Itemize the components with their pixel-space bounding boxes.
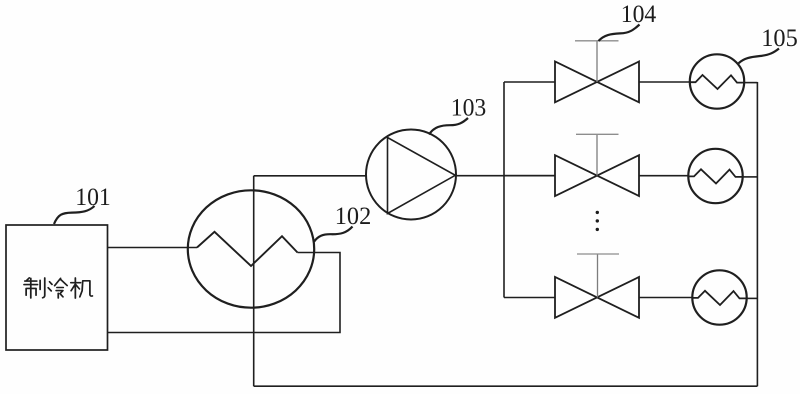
wire V1 to HX1	[639, 81, 690, 83]
leader 104	[599, 25, 640, 42]
svg-text:105: 105	[761, 25, 798, 52]
leader 102	[314, 227, 353, 242]
valve V3 stem	[597, 254, 599, 297]
fan-coil HX circle row2 (105)	[688, 149, 742, 203]
wire HX3 to return bus	[747, 297, 758, 299]
wire HX102 to pump	[254, 175, 366, 177]
wire manifold to valve V1	[504, 81, 555, 83]
wire box to HX102	[108, 247, 198, 249]
valve V3 handle bar	[577, 253, 619, 255]
svg-text:102: 102	[335, 203, 372, 230]
wire V2 to HX2	[639, 175, 689, 177]
HX102 zigzag	[197, 232, 298, 266]
wire HX1 to return bus	[744, 82, 757, 84]
bottom return wire	[254, 385, 758, 387]
wire manifold to valve V3	[504, 297, 555, 299]
valve V3 (104)	[555, 277, 639, 318]
leader 105	[739, 49, 780, 64]
wire pump to manifold	[455, 175, 555, 177]
text 制冷机	[24, 278, 92, 298]
valve V1 stem	[596, 41, 598, 82]
HX row1 zigzag	[690, 75, 744, 89]
leader 101	[54, 206, 95, 224]
valve V2 stem	[596, 135, 598, 176]
heat exchanger circle 102	[188, 190, 314, 307]
secondary vertical wire through HX102	[253, 176, 255, 386]
HX row3 zigzag	[693, 291, 747, 305]
wire V3 to HX3	[639, 297, 693, 299]
return manifold bus	[756, 82, 758, 386]
supply manifold bus	[503, 82, 505, 298]
valve V1 handle bar	[575, 40, 619, 42]
svg-text:103: 103	[451, 95, 487, 122]
wire manifold to valve V2	[504, 175, 555, 177]
pump triangle	[388, 138, 456, 214]
fan-coil HX circle row3 (105)	[692, 270, 746, 324]
vertical ellipsis dots	[596, 211, 599, 231]
valve V2 handle bar	[576, 133, 619, 135]
refrigerator box 101	[6, 225, 108, 350]
primary loop return wire	[108, 253, 341, 333]
valve V1 (104)	[555, 62, 639, 103]
leader 103	[429, 118, 468, 135]
valve V2 (104)	[555, 155, 639, 196]
wire HX2 to return bus	[743, 176, 758, 178]
pump circle 103	[366, 130, 456, 220]
HX row2 zigzag	[689, 169, 743, 183]
fan-coil HX circle row1 (105)	[690, 54, 744, 108]
